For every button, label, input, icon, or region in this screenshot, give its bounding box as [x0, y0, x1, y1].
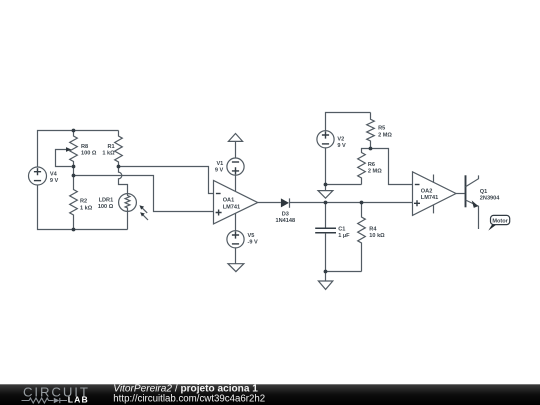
ground below V2: [325, 185, 327, 191]
svg-text:R1: R1: [107, 144, 114, 150]
resistor R4 10k: [358, 203, 366, 272]
svg-text:V4: V4: [50, 172, 58, 178]
svg-text:9 V: 9 V: [337, 143, 346, 149]
svg-text:10 kΩ: 10 kΩ: [369, 233, 385, 239]
potentiometer R8: [70, 131, 78, 167]
wire OA1 output to D3: [258, 202, 281, 204]
svg-text:Motor: Motor: [492, 218, 508, 224]
wire R1 bottom to OA1 inverting input: [119, 167, 214, 194]
wire C1 bottom to R4 bottom: [326, 271, 362, 273]
resistor R6 2M: [358, 149, 371, 185]
ground below C1: [325, 272, 327, 282]
voltage source V4 9V: [29, 167, 47, 185]
wire OA2 output to Q1 base: [456, 193, 465, 195]
wire bottom rail from V4 to LDR1: [38, 185, 128, 229]
op-amp OA2 LM741: [413, 172, 457, 216]
svg-text:V1: V1: [216, 161, 223, 167]
LDR1 light arrows: [139, 205, 148, 220]
svg-text:2N3904: 2N3904: [480, 196, 500, 202]
svg-text:R4: R4: [369, 227, 377, 233]
svg-text:2 MΩ: 2 MΩ: [378, 132, 392, 138]
svg-text:100 Ω: 100 Ω: [98, 204, 114, 210]
svg-text:OA2: OA2: [421, 189, 433, 195]
svg-text:R5: R5: [378, 126, 385, 132]
ground below V5: [228, 264, 244, 272]
svg-text:-9 V: -9 V: [248, 240, 259, 246]
svg-text:LM741: LM741: [223, 204, 240, 210]
resistor R1 1k: [115, 131, 123, 167]
wire R8 wiper net to OA1 non-inverting input: [74, 176, 214, 212]
svg-text:1 kΩ: 1 kΩ: [80, 205, 93, 211]
resistor R2 1k: [70, 176, 78, 230]
svg-text:R2: R2: [80, 199, 87, 205]
voltage source V1 9V: [227, 158, 244, 175]
wire top rail from V4 to R1: [38, 131, 119, 168]
svg-text:9 V: 9 V: [215, 168, 224, 174]
wire R8 bottom to R2 top: [73, 167, 75, 176]
voltage source V2 9V: [317, 131, 334, 148]
svg-text:LM741: LM741: [421, 195, 438, 201]
wire OA1 V- pin to V5: [235, 213, 237, 230]
wire R1 bottom to LDR1 with hop over wiper net: [119, 167, 128, 195]
diode D3 1N4148: [281, 198, 290, 207]
voltage source V5 -9V: [227, 231, 244, 248]
resistor R5 2M: [367, 113, 375, 149]
svg-text:Q1: Q1: [480, 189, 487, 195]
Motor annotation bubble: [488, 215, 509, 230]
capacitor C1 1uF: [315, 203, 336, 272]
svg-text:1 µF: 1 µF: [338, 233, 350, 239]
supply node arrow above V1: [228, 134, 242, 142]
svg-text:1N4148: 1N4148: [275, 218, 295, 224]
svg-text:9 V: 9 V: [50, 178, 59, 184]
wire V5 to ground: [235, 248, 237, 264]
wire V2 top rail to R5: [326, 113, 371, 131]
wire OA1 V+ pin to V1: [235, 175, 237, 191]
svg-text:V5: V5: [248, 233, 255, 239]
svg-text:OA1: OA1: [223, 198, 235, 204]
CircuitLab logo squiggle: [22, 398, 68, 403]
svg-text:100 Ω: 100 Ω: [81, 151, 97, 157]
svg-text:C1: C1: [338, 227, 345, 233]
wire LDR1 bottom: [127, 211, 129, 229]
wire R5-R6 node to OA2 inverting input: [371, 149, 413, 185]
wire D3 to OA2 non-inverting input: [290, 202, 413, 204]
svg-text:1 kΩ: 1 kΩ: [102, 151, 115, 157]
footer bar background: [0, 384, 540, 405]
svg-text:R6: R6: [368, 162, 375, 168]
transistor Q1 2N3904: [466, 175, 479, 229]
svg-text:V2: V2: [337, 136, 344, 142]
svg-text:2 MΩ: 2 MΩ: [368, 169, 382, 175]
svg-text:LAB: LAB: [68, 395, 89, 405]
svg-text:http://circuitlab.com/cwt39c4a: http://circuitlab.com/cwt39c4a6r2h2: [113, 394, 265, 405]
junction nodes: [72, 129, 373, 274]
svg-text:D3: D3: [282, 212, 289, 218]
wire V1 to supply node: [235, 141, 237, 158]
wiper arrow of R8: [56, 150, 72, 167]
photoresistor LDR1: [119, 194, 137, 212]
svg-text:LDR1: LDR1: [99, 197, 114, 203]
wire V2 bottom to R6 bottom: [326, 148, 362, 185]
svg-text:R8: R8: [81, 144, 88, 150]
op-amp OA1 LM741: [214, 181, 258, 224]
